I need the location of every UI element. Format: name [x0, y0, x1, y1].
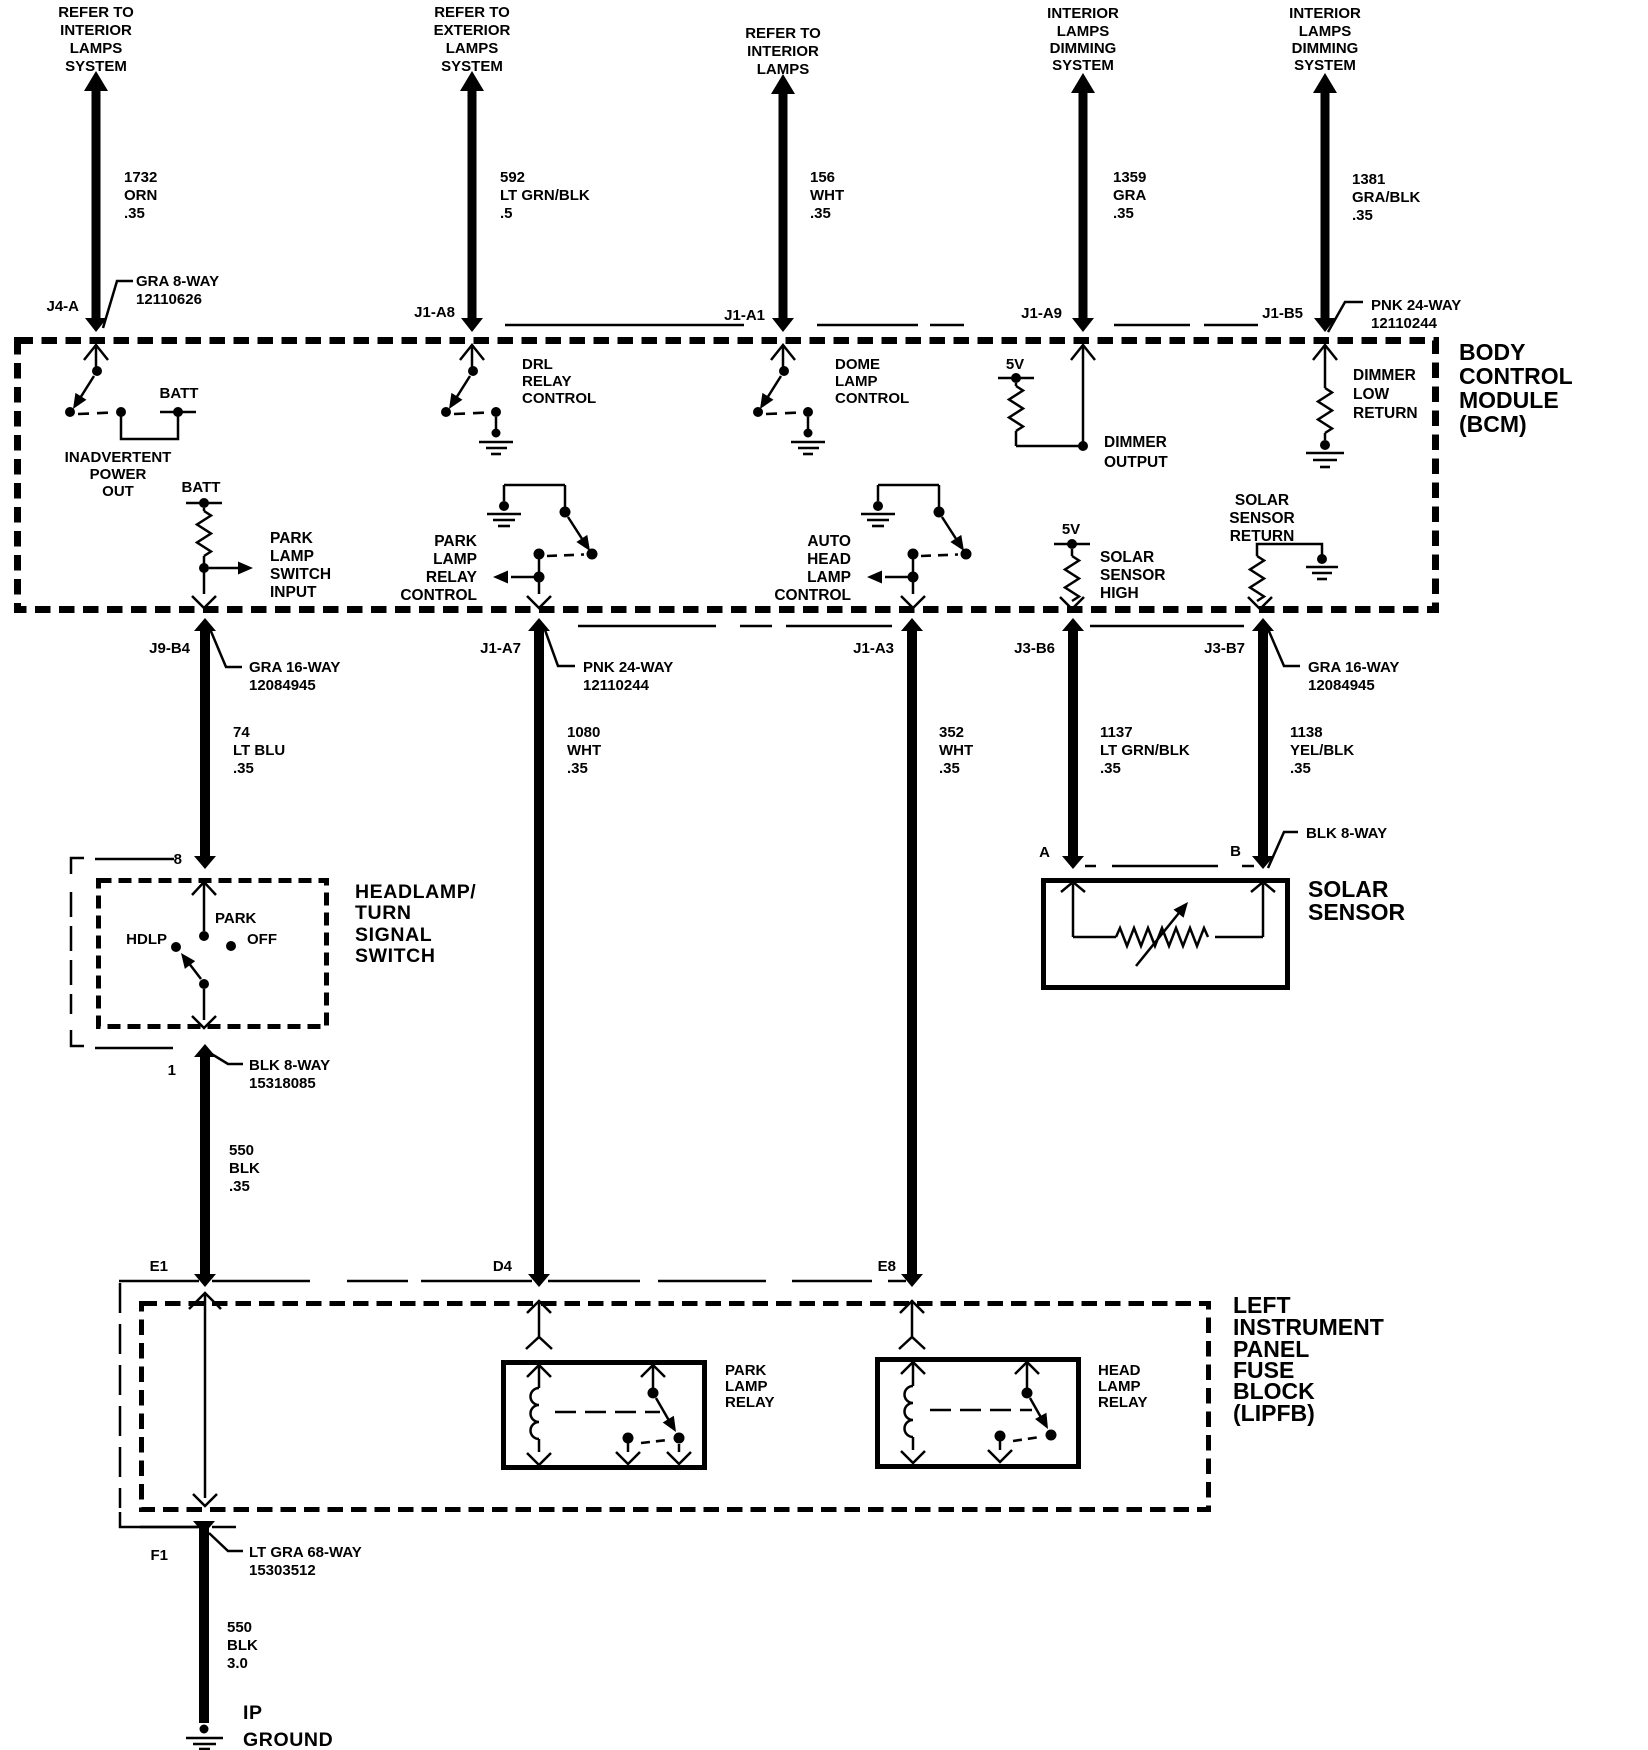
svg-text:BLK 8-WAY: BLK 8-WAY [249, 1057, 330, 1074]
svg-text:SENSOR: SENSOR [1100, 567, 1165, 584]
node J1-A9 receptacle chevron and dimmer output line [1016, 345, 1095, 451]
wire 156 WHT to interior lamps (off-page arrow) [771, 74, 795, 332]
label wire 156 WHT .35 [810, 169, 844, 222]
node E8 receptacle chevron [900, 1301, 924, 1337]
node J1-A1 receptacle chevron [771, 345, 795, 367]
bracket left instrument panel fuse block [119, 1283, 204, 1528]
svg-text:HEAD: HEAD [1098, 1362, 1141, 1379]
svg-text:.35: .35 [1113, 205, 1134, 222]
svg-text:SENSOR: SENSOR [1308, 899, 1406, 925]
svg-text:IP: IP [243, 1702, 263, 1724]
svg-text:BLK 8-WAY: BLK 8-WAY [1306, 825, 1387, 842]
svg-text:.35: .35 [233, 760, 254, 777]
node J9-B4 output chevron [192, 596, 216, 608]
node REFER TO EXTERIOR LAMPS SYSTEM [434, 4, 511, 75]
svg-text:.35: .35 [1290, 760, 1311, 777]
label wire 1381 GRA/BLK .35 [1352, 171, 1420, 224]
svg-text:BATT: BATT [160, 385, 199, 402]
switch headlamp selector HDLP contact [126, 931, 181, 952]
switch headlamp selector PARK contact [199, 910, 257, 941]
wire 1381 GRA/BLK to dimming system (off-page arrow) [1313, 73, 1337, 332]
ground (solar sensor return) [1306, 554, 1338, 579]
svg-text:DIMMER: DIMMER [1353, 367, 1416, 384]
node head lamp relay connector chevron [899, 1337, 925, 1349]
module BODY CONTROL MODULE (BCM) dashed box [18, 341, 1436, 610]
wire 550 BLK 3.0 (F1 to IP ground) [193, 1521, 215, 1723]
inductor park lamp relay coil [527, 1365, 551, 1465]
svg-text:(BCM): (BCM) [1459, 411, 1527, 437]
switch DRL relay control driver [441, 366, 501, 417]
svg-text:HEADLAMP/: HEADLAMP/ [355, 881, 476, 903]
power 5V terminal (solar sensor high) [1054, 521, 1090, 549]
node INTERIOR LAMPS DIMMING SYSTEM (left) [1047, 5, 1119, 74]
connector PNK 24-WAY 12110244 (J1-B5) [1328, 297, 1461, 332]
node J4-A receptacle chevron [84, 345, 108, 367]
svg-text:BATT: BATT [182, 479, 221, 496]
node J1-A3 output chevron [901, 596, 925, 608]
svg-text:BLK: BLK [227, 1637, 258, 1654]
node J1-A8 receptacle chevron [460, 345, 484, 367]
wire 352 WHT (J1-A3 to LIPFB E8) [901, 618, 923, 1287]
label wire 1138 YEL/BLK .35 [1290, 724, 1354, 777]
svg-text:PARK: PARK [215, 910, 257, 927]
pin A [1039, 844, 1050, 861]
svg-text:SWITCH: SWITCH [270, 566, 331, 583]
svg-text:LAMP: LAMP [1098, 1378, 1141, 1395]
switch headlamp selector OFF contact [226, 931, 277, 951]
svg-text:GRA 16-WAY: GRA 16-WAY [249, 659, 340, 676]
svg-text:SYSTEM: SYSTEM [1294, 57, 1356, 74]
ground (park lamp relay control bracket) [487, 501, 521, 526]
svg-text:1359: 1359 [1113, 169, 1146, 186]
pin J4-A [46, 298, 79, 315]
label INADVERTENT POWER OUT [65, 449, 172, 500]
svg-text:LT GRN/BLK: LT GRN/BLK [500, 187, 590, 204]
svg-text:E8: E8 [878, 1258, 896, 1275]
connector BLK 8-WAY (solar sensor) [1268, 825, 1387, 868]
svg-text:15303512: 15303512 [249, 1562, 316, 1579]
svg-text:DIMMER: DIMMER [1104, 434, 1167, 451]
svg-text:74: 74 [233, 724, 250, 741]
svg-text:RELAY: RELAY [426, 569, 478, 586]
wire park lamp relay coil-contact dashed link [555, 1411, 660, 1414]
svg-text:LAMP: LAMP [807, 569, 851, 586]
svg-text:POWER: POWER [90, 466, 147, 483]
connector face line LT GRA 68-WAY (bottom F1) [140, 1526, 236, 1529]
pin 8 [174, 851, 182, 868]
switch head lamp relay contacts [988, 1362, 1057, 1462]
ground (dimmer low return) [1306, 440, 1344, 467]
svg-text:12084945: 12084945 [249, 677, 316, 694]
label wire 74 LT BLU .35 [233, 724, 285, 777]
label wire 1080 WHT .35 [567, 724, 601, 777]
svg-text:HIGH: HIGH [1100, 585, 1139, 602]
svg-text:12084945: 12084945 [1308, 677, 1375, 694]
svg-text:352: 352 [939, 724, 964, 741]
wire head lamp relay coil-contact dashed link [930, 1409, 1032, 1412]
label wire 550 BLK .35 [229, 1142, 260, 1195]
relay PARK LAMP RELAY box [504, 1363, 705, 1468]
svg-text:OFF: OFF [247, 931, 277, 948]
switch park lamp relay control driver [504, 485, 598, 594]
svg-text:OUTPUT: OUTPUT [1104, 454, 1168, 471]
pin 1 [168, 1062, 176, 1079]
svg-text:ORN: ORN [124, 187, 157, 204]
switch headlamp selector wiper [176, 949, 209, 1020]
node J1-B5 receptacle chevron [1313, 345, 1337, 388]
node solar sensor pin B chevron [1251, 882, 1275, 937]
label wire 1732 ORN .35 [124, 169, 157, 222]
svg-text:PARK: PARK [725, 1362, 767, 1379]
wire J1 connector spine (bottom) [578, 625, 892, 628]
svg-text:GRA/BLK: GRA/BLK [1352, 189, 1420, 206]
svg-text:A: A [1039, 844, 1050, 861]
svg-text:INTERIOR: INTERIOR [747, 43, 819, 60]
svg-text:CONTROL: CONTROL [400, 587, 477, 604]
label PARK LAMP RELAY [725, 1362, 774, 1411]
svg-text:PNK 24-WAY: PNK 24-WAY [1371, 297, 1461, 314]
svg-text:1137: 1137 [1100, 724, 1133, 741]
svg-text:YEL/BLK: YEL/BLK [1290, 742, 1354, 759]
node switch pin 1 output chevron [192, 1016, 216, 1028]
svg-text:LAMP: LAMP [433, 551, 477, 568]
svg-text:F1: F1 [150, 1547, 168, 1564]
svg-text:CONTROL: CONTROL [835, 390, 909, 407]
label SOLAR SENSOR [1308, 876, 1406, 925]
svg-text:.35: .35 [124, 205, 145, 222]
svg-text:1138: 1138 [1290, 724, 1323, 741]
label wire 550 BLK 3.0 [227, 1619, 258, 1672]
node park lamp relay connector chevron [526, 1337, 552, 1349]
label BODY CONTROL MODULE (BCM) [1459, 339, 1573, 437]
svg-text:CONTROL: CONTROL [774, 587, 851, 604]
connector face line switch pin 8 [95, 858, 174, 861]
svg-text:INTERIOR: INTERIOR [1289, 5, 1361, 22]
switch dome lamp control driver [753, 366, 813, 417]
svg-text:LT GRN/BLK: LT GRN/BLK [1100, 742, 1190, 759]
node park lamp relay control junction with arrow [493, 571, 545, 584]
svg-text:.35: .35 [1352, 207, 1373, 224]
inductor head lamp relay coil [901, 1362, 925, 1463]
svg-text:RETURN: RETURN [1230, 528, 1295, 545]
svg-text:1080: 1080 [567, 724, 600, 741]
wire U-link to BATT [121, 416, 178, 439]
svg-text:5V: 5V [1062, 521, 1080, 538]
pin J1-A7 [480, 640, 521, 657]
svg-text:.35: .35 [1100, 760, 1121, 777]
module HEADLAMP/TURN SIGNAL SWITCH dashed box [99, 881, 327, 1027]
svg-text:MODULE: MODULE [1459, 387, 1559, 413]
node auto headlamp control junction with arrow [867, 571, 919, 584]
svg-text:RELAY: RELAY [1098, 1394, 1147, 1411]
svg-text:550: 550 [229, 1142, 254, 1159]
label PARK LAMP RELAY CONTROL [400, 533, 477, 604]
resistor park lamp switch input pull-up [197, 508, 211, 594]
node switch pin 8 receptacle chevron [192, 882, 216, 931]
pin J1-A3 [853, 640, 894, 657]
wire 1359 GRA to dimming system (off-page arrow) [1071, 73, 1095, 332]
svg-text:12110244: 12110244 [583, 677, 650, 694]
wire 74 LT BLU (J9-B4 to switch pin 8) [194, 618, 216, 869]
node REFER TO INTERIOR LAMPS [745, 25, 821, 78]
svg-text:12110626: 12110626 [136, 291, 202, 308]
svg-text:SENSOR: SENSOR [1229, 510, 1294, 527]
bracket headlamp switch [71, 858, 84, 1046]
svg-text:J1-A1: J1-A1 [724, 307, 765, 324]
wire E1 to F1 inside fuse block [204, 1295, 207, 1498]
node D4 receptacle chevron [527, 1301, 551, 1337]
svg-text:J3-B7: J3-B7 [1204, 640, 1245, 657]
connector LT GRA 68-WAY 15303512 [209, 1533, 362, 1579]
node J1-A7 output chevron [527, 596, 551, 608]
svg-text:592: 592 [500, 169, 525, 186]
svg-text:LT BLU: LT BLU [233, 742, 285, 759]
label DIMMER LOW RETURN [1353, 367, 1418, 422]
svg-text:AUTO: AUTO [807, 533, 851, 550]
label SOLAR SENSOR RETURN [1229, 492, 1294, 545]
svg-text:3.0: 3.0 [227, 1655, 248, 1672]
svg-text:5V: 5V [1006, 356, 1024, 373]
svg-text:LT GRA 68-WAY: LT GRA 68-WAY [249, 1544, 362, 1561]
pin E1 [150, 1258, 168, 1275]
label PARK LAMP SWITCH INPUT [270, 530, 331, 601]
svg-text:1: 1 [168, 1062, 176, 1079]
label SOLAR SENSOR HIGH [1100, 549, 1165, 602]
node REFER TO INTERIOR LAMPS SYSTEM [58, 4, 134, 75]
pin J3-B6 [1014, 640, 1055, 657]
svg-text:LAMPS: LAMPS [1057, 23, 1110, 40]
pin J1-A9 [1021, 305, 1062, 322]
svg-text:REFER TO: REFER TO [434, 4, 510, 21]
svg-text:CONTROL: CONTROL [1459, 363, 1573, 389]
wire solar sensor return link [1257, 544, 1322, 556]
connector face line solar sensor [1085, 865, 1254, 868]
pin J1-A1 [724, 307, 765, 324]
wire 1137 LT GRN/BLK (J3-B6 to solar sensor A) [1062, 618, 1084, 869]
connector face line LT GRA 68-WAY (top) [119, 1280, 906, 1283]
svg-text:LAMPS: LAMPS [446, 40, 499, 57]
pin J3-B7 [1204, 640, 1245, 657]
svg-text:B: B [1230, 843, 1241, 860]
label wire 1359 GRA .35 [1113, 169, 1147, 222]
label wire 592 LT GRN/BLK .5 [500, 169, 590, 222]
node J3-B6 output chevron [1060, 597, 1084, 609]
pin D4 [493, 1258, 513, 1275]
label DOME LAMP CONTROL [835, 356, 909, 407]
pin J1-B5 [1262, 305, 1303, 322]
switch park lamp relay contacts [616, 1365, 691, 1464]
power 5V terminal (dimmer output) [998, 356, 1034, 383]
resistor dimmer output pull-up [1009, 383, 1023, 446]
svg-text:J1-A8: J1-A8 [414, 304, 455, 321]
svg-text:HEAD: HEAD [807, 551, 851, 568]
svg-text:J1-A3: J1-A3 [853, 640, 894, 657]
svg-text:(LIPFB): (LIPFB) [1233, 1400, 1315, 1426]
pin J9-B4 [149, 640, 191, 657]
connector GRA 16-WAY 12084945 (J9-B4) [210, 629, 340, 694]
label DIMMER OUTPUT [1104, 434, 1168, 471]
svg-text:8: 8 [174, 851, 182, 868]
svg-text:PARK: PARK [270, 530, 314, 547]
wire 1080 WHT (J1-A7 to LIPFB D4) [528, 618, 550, 1287]
svg-text:BODY: BODY [1459, 339, 1525, 365]
svg-text:1732: 1732 [124, 169, 157, 186]
svg-text:SWITCH: SWITCH [355, 945, 436, 967]
switch inadvertent power output driver [65, 366, 126, 417]
svg-text:1381: 1381 [1352, 171, 1385, 188]
svg-text:LOW: LOW [1353, 386, 1390, 403]
svg-text:DRL: DRL [522, 356, 553, 373]
svg-text:J3-B6: J3-B6 [1014, 640, 1055, 657]
svg-text:OUT: OUT [102, 483, 134, 500]
relay HEAD LAMP RELAY box [878, 1360, 1079, 1467]
resistor solar sensor high [1065, 549, 1079, 601]
svg-text:SIGNAL: SIGNAL [355, 924, 432, 946]
svg-text:.35: .35 [939, 760, 960, 777]
svg-text:HDLP: HDLP [126, 931, 167, 948]
resistor dimmer low return [1318, 388, 1332, 440]
svg-text:550: 550 [227, 1619, 252, 1636]
wire 1732 ORN to interior lamps (off-page arrow) [84, 71, 108, 332]
ground IP GROUND [186, 1725, 223, 1750]
label wire 1137 LT GRN/BLK .35 [1100, 724, 1190, 777]
svg-text:REFER TO: REFER TO [745, 25, 821, 42]
node F1 output chevron [193, 1494, 217, 1506]
svg-text:WHT: WHT [810, 187, 844, 204]
label AUTO HEAD LAMP CONTROL [774, 533, 851, 604]
svg-text:DIMMING: DIMMING [1292, 40, 1359, 57]
svg-text:12110244: 12110244 [1371, 315, 1438, 332]
svg-text:156: 156 [810, 169, 835, 186]
node INTERIOR LAMPS DIMMING SYSTEM (right) [1289, 5, 1361, 74]
svg-text:TURN: TURN [355, 902, 412, 924]
svg-text:LAMP: LAMP [725, 1378, 768, 1395]
svg-text:EXTERIOR: EXTERIOR [434, 22, 511, 39]
connector GRA 16-WAY 12084945 (J3-B7) [1268, 629, 1399, 694]
node park lamp switch input junction with arrow [199, 562, 253, 575]
connector BLK 8-WAY 15318085 [210, 1053, 330, 1092]
node solar sensor pin A chevron [1061, 882, 1085, 937]
svg-text:.35: .35 [229, 1178, 250, 1195]
svg-text:INTERIOR: INTERIOR [60, 22, 132, 39]
svg-text:E1: E1 [150, 1258, 168, 1275]
pin E8 [878, 1258, 896, 1275]
node E1 receptacle chevron [189, 1293, 221, 1309]
wire 592 LT GRN/BLK to exterior lamps (off-page arrow) [460, 71, 484, 332]
svg-text:J4-A: J4-A [46, 298, 79, 315]
label IP GROUND [243, 1702, 333, 1750]
svg-text:WHT: WHT [939, 742, 973, 759]
svg-text:LAMPS: LAMPS [70, 40, 123, 57]
component SOLAR SENSOR box [1044, 881, 1288, 988]
pin J1-A8 [414, 304, 455, 321]
wire 1138 YEL/BLK (J3-B7 to solar sensor B) [1252, 618, 1274, 869]
svg-text:PNK 24-WAY: PNK 24-WAY [583, 659, 673, 676]
svg-text:LAMP: LAMP [835, 373, 878, 390]
svg-text:LAMP: LAMP [270, 548, 314, 565]
switch auto headlamp control driver [878, 485, 972, 594]
connector PNK 24-WAY 12110244 (J1-A7) [545, 630, 673, 694]
ground (auto headlamp control bracket) [861, 501, 895, 526]
svg-text:INADVERTENT: INADVERTENT [65, 449, 172, 466]
ground (DRL relay control) [479, 417, 513, 454]
wire 550 BLK (switch pin 1 to LIPFB E1) [194, 1044, 216, 1287]
svg-text:DOME: DOME [835, 356, 880, 373]
svg-text:REFER TO: REFER TO [58, 4, 134, 21]
svg-text:15318085: 15318085 [249, 1075, 316, 1092]
label wire 352 WHT .35 [939, 724, 973, 777]
label DRL RELAY CONTROL [522, 356, 596, 407]
svg-text:PARK: PARK [434, 533, 478, 550]
pin B [1230, 843, 1241, 860]
svg-text:.5: .5 [500, 205, 513, 222]
svg-text:.35: .35 [810, 205, 831, 222]
module LEFT INSTRUMENT PANEL FUSE BLOCK dashed box [142, 1304, 1209, 1510]
svg-text:WHT: WHT [567, 742, 601, 759]
svg-text:GROUND: GROUND [243, 1729, 333, 1750]
svg-text:BLK: BLK [229, 1160, 260, 1177]
svg-text:INPUT: INPUT [270, 584, 317, 601]
svg-text:RELAY: RELAY [725, 1394, 774, 1411]
svg-text:GRA 16-WAY: GRA 16-WAY [1308, 659, 1399, 676]
svg-text:RETURN: RETURN [1353, 405, 1418, 422]
wire J1 connector spine (top) [505, 324, 1258, 327]
svg-text:SOLAR: SOLAR [1100, 549, 1154, 566]
svg-text:GRA 8-WAY: GRA 8-WAY [136, 273, 219, 290]
node J3-B7 output chevron [1248, 597, 1272, 609]
svg-text:J1-B5: J1-B5 [1262, 305, 1303, 322]
pin F1 [150, 1547, 168, 1564]
svg-text:RELAY: RELAY [522, 373, 571, 390]
label LEFT INSTRUMENT PANEL FUSE BLOCK (LIPFB) [1233, 1292, 1384, 1426]
svg-text:INTERIOR: INTERIOR [1047, 5, 1119, 22]
resistor solar sensor return [1250, 556, 1264, 601]
power BATT terminal (inadvertent power) [160, 385, 199, 417]
svg-text:LAMPS: LAMPS [1299, 23, 1352, 40]
connector GRA 8-WAY 12110626 [103, 273, 219, 328]
svg-text:CONTROL: CONTROL [522, 390, 596, 407]
svg-text:GRA: GRA [1113, 187, 1147, 204]
wire J3 connector spine [1090, 625, 1244, 628]
ground (dome lamp control) [791, 417, 825, 454]
svg-text:J1-A7: J1-A7 [480, 640, 521, 657]
svg-text:J9-B4: J9-B4 [149, 640, 191, 657]
svg-text:.35: .35 [567, 760, 588, 777]
power BATT terminal (park lamp switch input) [182, 479, 222, 508]
label HEAD LAMP RELAY [1098, 1362, 1147, 1411]
resistor photodiode element (variable) [1073, 898, 1263, 966]
svg-text:SYSTEM: SYSTEM [1052, 57, 1114, 74]
svg-text:SOLAR: SOLAR [1235, 492, 1289, 509]
connector face line switch pin 1 [95, 1047, 173, 1050]
svg-text:D4: D4 [493, 1258, 513, 1275]
label HEADLAMP/ TURN SIGNAL SWITCH [355, 881, 476, 967]
svg-text:J1-A9: J1-A9 [1021, 305, 1062, 322]
svg-text:DIMMING: DIMMING [1050, 40, 1117, 57]
